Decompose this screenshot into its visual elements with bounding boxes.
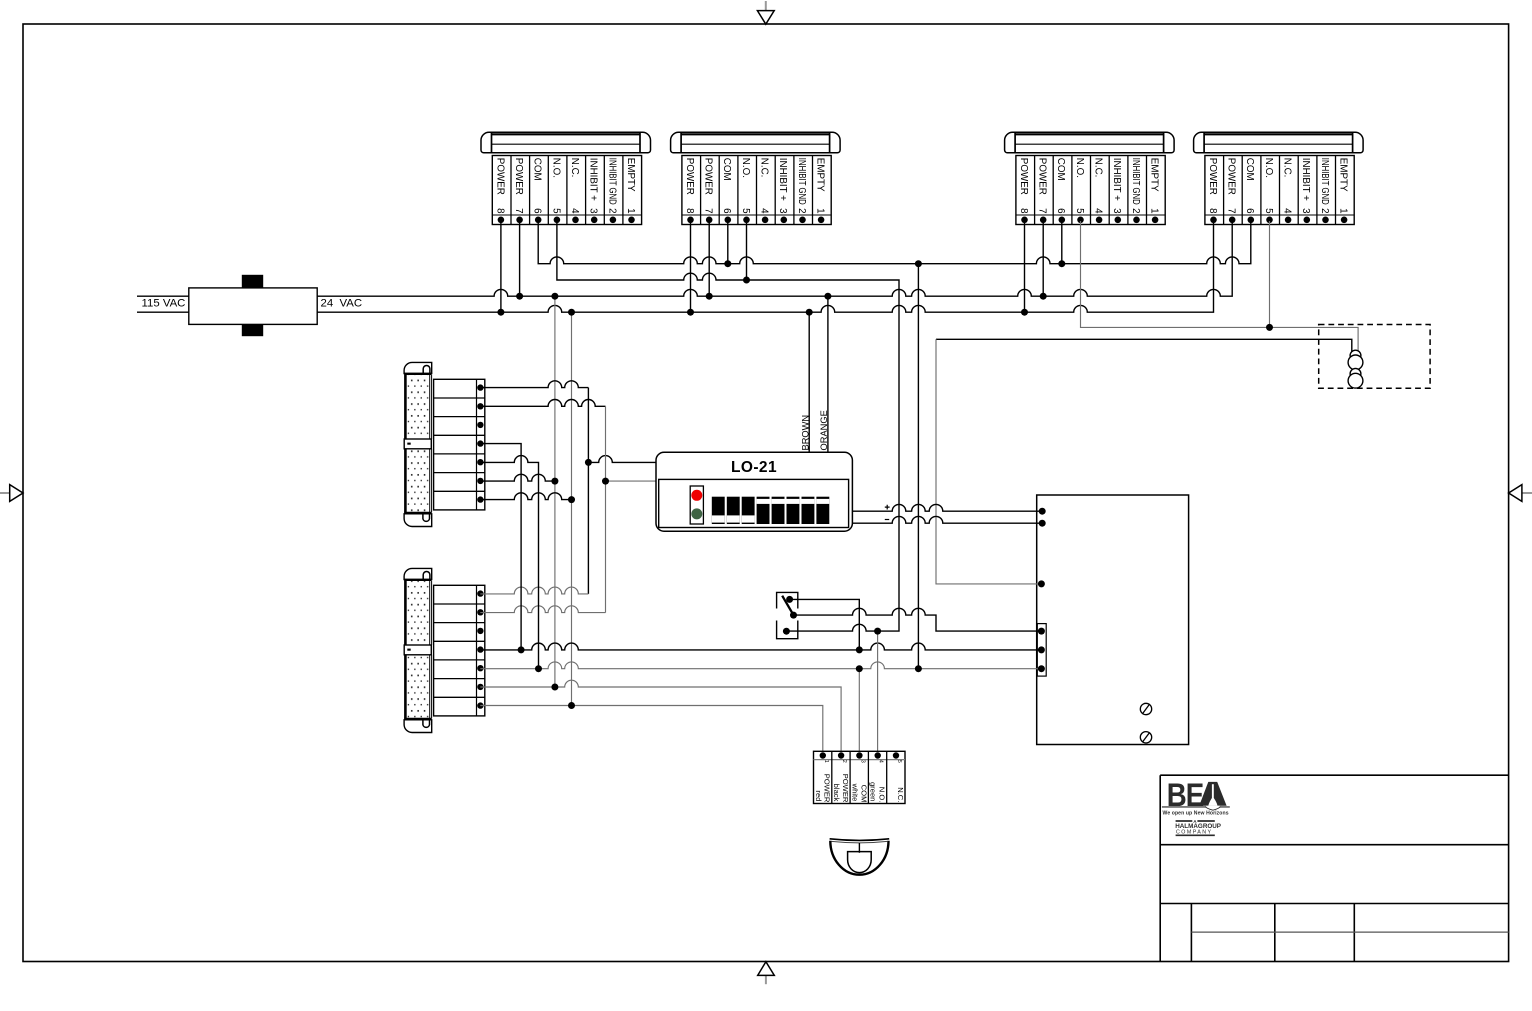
svg-text:7: 7 bbox=[513, 208, 524, 213]
svg-text:1: 1 bbox=[625, 208, 636, 213]
junction: header2 COM pin6 / line A bbox=[724, 260, 731, 267]
svg-text:POWER: POWER bbox=[1226, 158, 1237, 195]
svg-text:INHIBIT +: INHIBIT + bbox=[1111, 158, 1122, 201]
BEA logo bbox=[1162, 778, 1230, 817]
wire: sensor A row4 to N.O. net bbox=[480, 444, 521, 650]
wire: sensor B row7 to terminal pin1 bbox=[480, 706, 823, 756]
svg-text:POWER: POWER bbox=[1037, 158, 1048, 195]
wire: sensor A row7 to 24VAC bottom bbox=[480, 493, 571, 500]
svg-text:7: 7 bbox=[1226, 208, 1237, 213]
svg-text:6: 6 bbox=[1055, 208, 1066, 214]
wire: header 4 pin 5 vertical bbox=[1269, 221, 1271, 327]
motion sensor dome bbox=[830, 839, 890, 875]
LED green bbox=[691, 508, 702, 519]
svg-text:N.O.: N.O. bbox=[878, 787, 887, 803]
svg-text:POWER: POWER bbox=[841, 774, 850, 803]
svg-text:N.O.: N.O. bbox=[1074, 158, 1085, 178]
wire: lock return wire bbox=[936, 339, 1352, 353]
svg-text:black: black bbox=[832, 784, 841, 802]
wire: row1 net vertical bbox=[587, 388, 589, 594]
svg-text:POWER: POWER bbox=[1207, 158, 1218, 195]
junction: sensor B row4 / row4 net bbox=[518, 646, 525, 653]
wire: 24VAC top tap down left sensors bbox=[554, 296, 556, 687]
junction: terminal pin3 / row5 net bbox=[856, 665, 863, 672]
terminal block S4 (header 4) (8-pin) bbox=[1205, 156, 1354, 225]
sensor S5 (door sensor A) housing (vertical) bbox=[404, 362, 432, 526]
junction: header3 POWER pin8 / line D bbox=[1021, 309, 1028, 316]
svg-text:5: 5 bbox=[550, 208, 561, 214]
svg-text:N.O.: N.O. bbox=[740, 158, 751, 178]
lock coil 1 bbox=[1348, 350, 1363, 370]
svg-text:1: 1 bbox=[1338, 208, 1349, 213]
svg-text:EMPTY: EMPTY bbox=[625, 158, 636, 192]
junction: switch middle at controller bbox=[1038, 628, 1045, 635]
svg-text:4: 4 bbox=[1282, 208, 1293, 214]
junction: row2 net / LO-21 stub bbox=[602, 478, 609, 485]
wire: terminal pin4 N.O. vertical bbox=[877, 631, 879, 755]
wire: sensor B row6 to terminal pin2 bbox=[480, 680, 841, 755]
junction: row4 net at controller bbox=[1038, 646, 1045, 653]
junction: line C / ORANGE tap bbox=[824, 293, 831, 300]
wire: lock net drop to controller bbox=[936, 339, 1041, 584]
svg-text:5: 5 bbox=[740, 208, 751, 214]
svg-text:2: 2 bbox=[1319, 208, 1330, 213]
transformer T1 115/24 VAC bbox=[189, 275, 317, 336]
svg-text:EMPTY: EMPTY bbox=[1338, 158, 1349, 192]
junction: header1 POWER pin8 / line D bbox=[497, 309, 504, 316]
svg-text:2: 2 bbox=[841, 760, 847, 763]
junction: LO-21 - at controller bbox=[1039, 520, 1046, 527]
wire: LO-21 - output to controller bbox=[852, 516, 1042, 523]
svg-text:8: 8 bbox=[684, 208, 695, 214]
svg-text:6: 6 bbox=[1244, 208, 1255, 214]
svg-text:POWER: POWER bbox=[703, 158, 714, 195]
svg-text:7: 7 bbox=[703, 208, 714, 213]
wire: header pin verticals B1 bbox=[501, 221, 520, 312]
junction: line C / sensor power tap bbox=[551, 293, 558, 300]
HALMA group logo bbox=[1175, 819, 1221, 836]
svg-text:5: 5 bbox=[1263, 208, 1274, 214]
svg-text:COM: COM bbox=[859, 785, 868, 803]
label + bbox=[885, 505, 890, 510]
svg-text:INHIBIT GND: INHIBIT GND bbox=[1319, 158, 1330, 205]
svg-text:5: 5 bbox=[896, 760, 902, 763]
wire 115VAC input stubs bbox=[137, 296, 189, 312]
junction: lock net at controller bbox=[1038, 580, 1045, 587]
junction: header1 POWER pin7 / line C bbox=[516, 293, 523, 300]
electric lock (dashed enclosure) bbox=[1319, 325, 1430, 389]
junction: COM bus drop / row5 net bbox=[915, 665, 922, 672]
wire: row2 net stub to LO-21 bbox=[606, 480, 659, 482]
wire: sensor A row1 bbox=[480, 381, 588, 388]
svg-text:We open up New Horizons: We open up New Horizons bbox=[1163, 811, 1229, 817]
controller input sub-terminal bbox=[1037, 624, 1046, 677]
svg-text:1: 1 bbox=[823, 760, 829, 763]
wire: N.O. net of headers 3+4 to lock bbox=[1081, 221, 1359, 353]
wire: sensor A row5 to COM net bbox=[480, 456, 538, 669]
terminal block S5 (door sensor A) (7 rows) bbox=[434, 379, 485, 510]
junction: LO-21 + at controller bbox=[1039, 508, 1046, 515]
svg-text:2: 2 bbox=[796, 208, 807, 213]
junction: header2 N.O. pin5 / line B bbox=[743, 277, 750, 284]
sensor S1 (header 1) housing bbox=[481, 132, 651, 153]
svg-text:1: 1 bbox=[1149, 208, 1160, 213]
junction: terminal pin4 / N.O. line bbox=[874, 628, 881, 635]
svg-text:COM: COM bbox=[721, 158, 732, 181]
svg-text:COM: COM bbox=[532, 158, 543, 181]
svg-text:N.C.: N.C. bbox=[1093, 158, 1104, 178]
svg-text:3: 3 bbox=[1111, 208, 1122, 214]
wire: N.O. bus line B with drop to switch/N.O. terminal bbox=[557, 221, 899, 631]
junction: header3 POWER pin7 / line C bbox=[1040, 293, 1047, 300]
terminal block TB5 (5-pin) bbox=[814, 751, 906, 803]
svg-text:INHIBIT +: INHIBIT + bbox=[588, 158, 599, 201]
title block bbox=[1160, 775, 1508, 961]
svg-text:POWER: POWER bbox=[494, 158, 505, 195]
junction: sensor A row7 / 24VAC bottom tap bbox=[568, 496, 575, 503]
junction: sensor B row6 / 24VAC top tap bbox=[551, 684, 558, 691]
lock coil 2 bbox=[1348, 368, 1363, 388]
registration arrow left bbox=[0, 485, 23, 502]
wire: COM row5 net to controller bbox=[480, 662, 1041, 669]
key switch S7 bbox=[777, 592, 798, 638]
svg-text:LO-21: LO-21 bbox=[731, 459, 777, 476]
svg-text:COM: COM bbox=[1244, 158, 1255, 181]
svg-text:POWER: POWER bbox=[823, 774, 832, 803]
wire: row2 net vertical bbox=[605, 406, 607, 612]
wire: sensor A row2 bbox=[480, 399, 605, 406]
wire: sensor B row2 bbox=[480, 606, 605, 613]
svg-text:8: 8 bbox=[494, 208, 505, 214]
svg-text:6: 6 bbox=[721, 208, 732, 214]
junction: header3 COM pin6 / line A bbox=[1058, 260, 1065, 267]
terminal block S2 (header 2) (8-pin) bbox=[682, 156, 831, 225]
wire: header pin verticals B2 bbox=[691, 221, 747, 312]
sensor S4 (header 4) housing bbox=[1194, 132, 1364, 153]
junction: header2 POWER pin7 / line C bbox=[706, 293, 713, 300]
terminal block S3 (header 3) (8-pin) bbox=[1016, 156, 1165, 225]
svg-text:ORANGE: ORANGE bbox=[819, 410, 829, 450]
wire: 24VAC top bus line C bbox=[317, 221, 1232, 296]
svg-text:115 VAC: 115 VAC bbox=[142, 298, 186, 310]
wire: switch common to row4 net bbox=[790, 599, 860, 650]
junction: row5 net at controller bbox=[1038, 665, 1045, 672]
junction: sensor A row6 / 24VAC top tap bbox=[551, 478, 558, 485]
wire: 24VAC bottom bus line D bbox=[317, 221, 1213, 312]
svg-text:4: 4 bbox=[569, 208, 580, 214]
junction: line D / sensor power tap bbox=[568, 309, 575, 316]
terminal block S6 (door sensor B) (7 rows) bbox=[434, 585, 485, 716]
svg-text:2: 2 bbox=[606, 208, 617, 213]
svg-text:6: 6 bbox=[532, 208, 543, 214]
svg-text:red: red bbox=[814, 790, 823, 801]
junction: sensor B row5 / row5 net bbox=[535, 665, 542, 672]
svg-text:POWER: POWER bbox=[684, 158, 695, 195]
svg-text:3: 3 bbox=[588, 208, 599, 214]
svg-text:N.C.: N.C. bbox=[896, 787, 905, 802]
registration arrow right bbox=[1509, 485, 1532, 502]
svg-text:white: white bbox=[850, 783, 859, 802]
op module U1 LO-21 bbox=[656, 452, 852, 531]
sensor S3 (header 3) housing bbox=[1005, 132, 1175, 153]
svg-text:4: 4 bbox=[759, 208, 770, 214]
sensor S2 (header 2) housing bbox=[671, 132, 841, 153]
junction: sensor B row7 / 24VAC bottom tap bbox=[568, 702, 575, 709]
wire: sensor B row1 bbox=[480, 587, 588, 594]
svg-text:POWER: POWER bbox=[513, 158, 524, 195]
svg-text:BROWN: BROWN bbox=[800, 415, 810, 451]
svg-text:N.O.: N.O. bbox=[1263, 158, 1274, 178]
svg-text:POWER: POWER bbox=[1018, 158, 1029, 195]
wire: row1 net stub to LO-21 bbox=[588, 456, 656, 463]
svg-text:2: 2 bbox=[1130, 208, 1141, 213]
svg-text:8: 8 bbox=[1207, 208, 1218, 214]
svg-text:N.C.: N.C. bbox=[1282, 158, 1293, 178]
screw terminal 2 bbox=[1140, 732, 1151, 743]
svg-text:5: 5 bbox=[1074, 208, 1085, 214]
svg-text:COM: COM bbox=[1055, 158, 1066, 181]
registration arrow top bbox=[757, 1, 774, 24]
svg-text:3: 3 bbox=[1300, 208, 1311, 214]
wire: N.O. row4 net to controller bbox=[480, 643, 1041, 650]
svg-text:INHIBIT GND: INHIBIT GND bbox=[1130, 158, 1141, 205]
junction: row1 net / LO-21 stub bbox=[585, 459, 592, 466]
wire: sensor A row6 to 24VAC top bbox=[480, 474, 555, 481]
sensor S6 (door sensor B) housing (vertical) bbox=[404, 568, 432, 732]
LED indicator housing bbox=[690, 486, 703, 524]
svg-text:EMPTY: EMPTY bbox=[1149, 158, 1160, 192]
junction: header2 POWER pin8 / line D bbox=[687, 309, 694, 316]
wire: 24VAC bottom tap down left sensors bbox=[571, 312, 573, 705]
junction: line A / COM drop bbox=[915, 260, 922, 267]
wire: COM bus drop (line A to row5) bbox=[917, 264, 919, 669]
svg-text:INHIBIT GND: INHIBIT GND bbox=[606, 158, 617, 205]
junction: line D / BROWN tap bbox=[806, 309, 813, 316]
wire: header pin verticals B3 bbox=[1025, 221, 1062, 312]
registration arrow bottom bbox=[758, 962, 775, 985]
wire: ORANGE lead to LO-21 bbox=[827, 296, 829, 452]
svg-text:1: 1 bbox=[815, 208, 826, 213]
label - bbox=[885, 519, 889, 521]
svg-text:8: 8 bbox=[1018, 208, 1029, 214]
svg-text:BE: BE bbox=[1167, 778, 1203, 814]
wire: switch middle contact to controller bbox=[794, 608, 1042, 631]
terminal block S1 (header 1) (8-pin) bbox=[492, 156, 641, 225]
wire: terminal pin3 COM vertical bbox=[858, 669, 860, 756]
svg-text:INHIBIT +: INHIBIT + bbox=[777, 158, 788, 201]
svg-text:N.C.: N.C. bbox=[759, 158, 770, 178]
svg-text:N.O.: N.O. bbox=[550, 158, 561, 178]
wire: LO-21 + output to controller bbox=[852, 504, 1042, 511]
wire: BROWN lead to LO-21 bbox=[808, 312, 810, 452]
DIP switch bank SW1 bbox=[712, 497, 830, 524]
svg-text:3: 3 bbox=[859, 760, 865, 763]
svg-text:green: green bbox=[869, 782, 878, 801]
svg-text:INHIBIT +: INHIBIT + bbox=[1300, 158, 1311, 201]
junction: header4 N.O. pin5 / lock feed bbox=[1266, 324, 1273, 331]
wire: COM bus line A (N.O./COM net across headers) bbox=[538, 221, 1251, 264]
svg-text:24 VAC: 24 VAC bbox=[321, 298, 363, 310]
svg-text:INHIBIT GND: INHIBIT GND bbox=[796, 158, 807, 205]
svg-text:N.C.: N.C. bbox=[569, 158, 580, 178]
svg-text:3: 3 bbox=[777, 208, 788, 214]
controller box (door operator) bbox=[1037, 495, 1189, 745]
svg-text:4: 4 bbox=[1093, 208, 1104, 214]
svg-text:7: 7 bbox=[1037, 208, 1048, 213]
svg-text:EMPTY: EMPTY bbox=[815, 158, 826, 192]
junction: switch common drop / row4 net bbox=[856, 646, 863, 653]
LED red bbox=[691, 490, 702, 501]
svg-text:4: 4 bbox=[878, 760, 884, 763]
screw terminal 1 bbox=[1140, 703, 1151, 714]
